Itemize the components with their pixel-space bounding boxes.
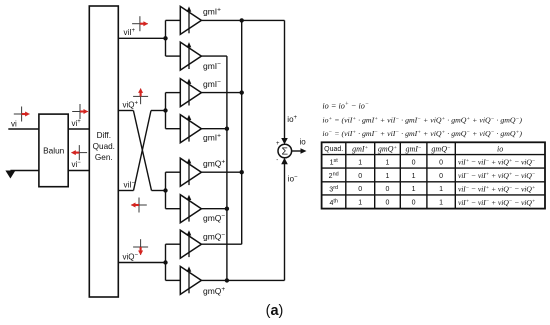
svg-text:0: 0 — [439, 159, 443, 166]
svg-text:1: 1 — [386, 173, 390, 180]
wire viI+ feed — [118, 28, 165, 38]
phasor vi (0 deg) — [14, 107, 30, 122]
table row 2nd — [329, 171, 536, 180]
svg-text:Σ: Σ — [282, 146, 289, 158]
diff quad gen box — [89, 6, 118, 297]
svg-text:Gen.: Gen. — [95, 153, 113, 162]
wire bus io+ — [240, 18, 244, 244]
wire viQ+ crossing diagonal down — [133, 111, 165, 191]
svg-text:-: - — [276, 158, 278, 164]
equation io — [322, 101, 369, 110]
wire viI- crossing diagonal up — [134, 111, 166, 191]
svg-text:0: 0 — [386, 200, 390, 207]
summer U1 — [276, 141, 292, 163]
op-amp gmI- A2 — [180, 42, 221, 71]
svg-text:0: 0 — [412, 159, 416, 166]
wire amp6 output — [201, 207, 229, 211]
op-amp gmI+ A4 — [180, 115, 221, 143]
svg-text:1: 1 — [412, 186, 416, 193]
svg-text:1: 1 — [439, 186, 443, 193]
svg-text:vi: vi — [11, 120, 17, 129]
phasor viQ- (270 deg down) — [133, 239, 148, 255]
ground wire — [10, 170, 39, 172]
op-amp gmQ- A7 — [180, 230, 225, 258]
phasor viQ+ (90 deg up) — [133, 88, 148, 104]
wire amp5 output — [201, 170, 244, 174]
balun box — [39, 114, 68, 187]
wire amp1 output to sum — [201, 20, 284, 143]
svg-text:io: io — [497, 145, 503, 154]
table row 3rd — [329, 184, 535, 193]
phasor vi- (180 deg) — [71, 145, 87, 160]
op-amp gmQ- A6 — [180, 195, 225, 223]
node io+ arrow into summer — [281, 115, 297, 144]
wire viQ- feed — [118, 253, 165, 263]
phasor viI- (180 deg) — [131, 198, 147, 213]
svg-text:1: 1 — [386, 159, 390, 166]
node viI+ junction — [163, 20, 180, 56]
svg-text:viI+ − viI− + viQ− − viQ+: viI+ − viI− + viQ− − viQ+ — [458, 198, 536, 207]
svg-text:Quad.: Quad. — [324, 146, 343, 153]
svg-text:1: 1 — [358, 159, 362, 166]
node viQ+ junction — [163, 172, 180, 209]
wire viQ+ from box — [118, 101, 138, 111]
phasor viI+ (0 deg) — [132, 16, 148, 31]
op-amp gmQ+ A5 — [180, 158, 225, 186]
svg-text:Diff.: Diff. — [97, 131, 111, 140]
svg-text:1: 1 — [412, 173, 416, 180]
wire amp3 output — [201, 90, 244, 94]
table row 4th — [329, 198, 535, 207]
wire amp2 output / bus io- — [201, 56, 227, 280]
svg-text:viI+ − viI− + viQ+ − viQ−: viI+ − viI− + viQ+ − viQ− — [458, 158, 536, 167]
caption (a) — [266, 303, 284, 319]
node io- arrow into summer — [281, 158, 298, 184]
op-amp gmI- A3 — [180, 79, 221, 107]
svg-text:Quad.: Quad. — [93, 142, 115, 151]
svg-text:+: + — [276, 141, 280, 147]
svg-text:viI− − viI+ + viQ+ − viQ−: viI− − viI+ + viQ+ − viQ− — [458, 171, 536, 180]
svg-text:0: 0 — [358, 186, 362, 193]
svg-text:0: 0 — [386, 186, 390, 193]
svg-text:0: 0 — [412, 200, 416, 207]
wire io output arrow — [292, 138, 307, 154]
table header row — [324, 145, 503, 154]
op-amp gmQ+ A8 — [180, 266, 225, 296]
equation io+ — [322, 116, 522, 125]
wire amp7 output — [201, 243, 241, 245]
svg-text:Balun: Balun — [43, 145, 65, 155]
svg-text:1: 1 — [439, 200, 443, 207]
wire vi input — [8, 120, 39, 130]
svg-text:1: 1 — [358, 200, 362, 207]
phasor vi+ (0 deg) — [72, 104, 88, 119]
svg-text:0: 0 — [358, 173, 362, 180]
wire vi+ — [68, 119, 89, 129]
wire vi- — [68, 160, 89, 171]
equation io- — [322, 129, 522, 138]
svg-text:io: io — [300, 138, 307, 147]
wire amp4 output — [201, 127, 229, 131]
table row 1st — [330, 158, 536, 167]
ground — [5, 171, 15, 179]
svg-text:viI− − viI+ + viQ− − viQ+: viI− − viI+ + viQ− − viQ+ — [458, 184, 536, 193]
svg-text:(a): (a) — [266, 303, 284, 319]
node viQ- junction — [163, 244, 180, 280]
wire viI- from box — [118, 181, 135, 191]
wire amp8 output to sum — [201, 159, 284, 283]
svg-text:0: 0 — [439, 173, 443, 180]
table grid — [322, 142, 545, 208]
op-amp gmI+ A1 — [180, 6, 221, 34]
node viI- junction — [163, 93, 180, 129]
